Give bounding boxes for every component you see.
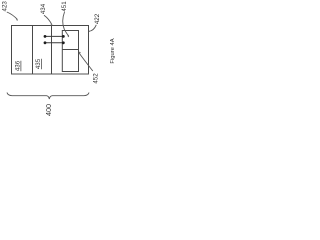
svg-text:436: 436 [15,60,22,71]
svg-text:435: 435 [35,58,42,69]
svg-text:434: 434 [40,3,47,14]
svg-text:451: 451 [61,1,68,12]
svg-text:422: 422 [94,13,101,24]
svg-text:423: 423 [2,1,9,12]
svg-text:Figure 4A: Figure 4A [110,38,116,63]
svg-text:452: 452 [92,73,99,84]
svg-text:400: 400 [44,104,53,116]
